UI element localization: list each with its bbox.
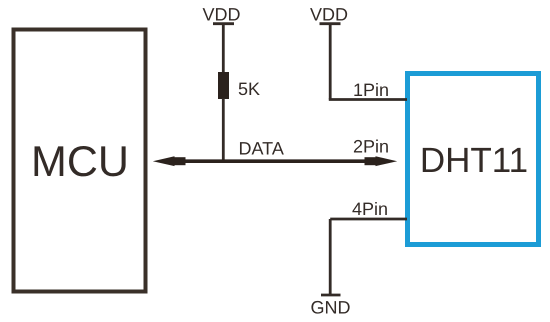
wire down to ground xyxy=(329,219,332,294)
svg-text:VDD: VDD xyxy=(203,4,241,24)
svg-text:VDD: VDD xyxy=(310,5,348,25)
wire from 4Pin xyxy=(330,218,407,221)
wire resistor to DATA line xyxy=(222,98,225,161)
wire to 1Pin xyxy=(329,98,407,101)
MCU U1 box xyxy=(14,30,146,292)
DHT11 U2 box xyxy=(408,74,539,245)
right arrowhead xyxy=(376,156,398,166)
left arrowhead xyxy=(153,156,175,166)
svg-text:DATA: DATA xyxy=(239,139,284,159)
ground xyxy=(321,294,341,297)
wire VDD down xyxy=(329,25,332,100)
resistor R1 5K xyxy=(218,72,229,99)
svg-text:1Pin: 1Pin xyxy=(353,80,389,100)
svg-text:GND: GND xyxy=(311,297,351,317)
svg-text:4Pin: 4Pin xyxy=(352,199,388,219)
svg-text:5K: 5K xyxy=(238,79,260,99)
svg-text:DHT11: DHT11 xyxy=(420,141,528,180)
svg-text:MCU: MCU xyxy=(31,138,129,186)
svg-text:2Pin: 2Pin xyxy=(353,137,389,157)
DATA bidirectional arrow wire xyxy=(170,159,380,163)
wire VDD to resistor xyxy=(222,25,225,75)
